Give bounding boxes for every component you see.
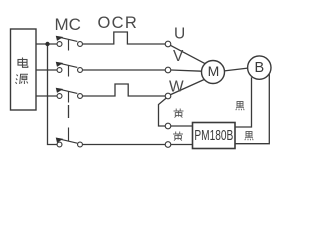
node junction dot on phase R <box>45 42 49 46</box>
terminal W <box>165 93 171 99</box>
wire phase R from box to pole1 <box>36 43 57 45</box>
wire brake line to PM180B <box>83 144 165 146</box>
power source box 电源 <box>11 29 37 110</box>
svg-text:M: M <box>208 63 220 79</box>
contactor MC pole 3 <box>57 89 82 103</box>
wire B right to PM180B right lower <box>235 74 269 144</box>
svg-text:W: W <box>169 79 184 96</box>
contactor MC pole 4 (brake) <box>57 128 82 147</box>
contactor MC pole 1 <box>57 37 82 51</box>
terminal yellow lower <box>165 142 171 148</box>
svg-text:PM180B: PM180B <box>194 127 233 143</box>
svg-text:OCR: OCR <box>98 14 139 32</box>
terminal U <box>165 41 171 47</box>
OCR thermal element on phase R <box>83 32 165 44</box>
label 黄 upper (yellow) hand drawn <box>174 109 184 118</box>
rectifier box PM180B <box>193 123 236 149</box>
svg-text:B: B <box>254 60 264 76</box>
wire phase T from box to pole3 <box>36 95 57 97</box>
wire U to motor <box>171 45 206 63</box>
wire tap from W to PM180B upper <box>159 98 167 126</box>
OCR thermal element on phase T <box>83 84 165 96</box>
wire W to motor <box>171 80 205 95</box>
wire vertical bus tap to brake line <box>48 44 57 145</box>
label PM180B <box>194 127 233 143</box>
label 电 (power) hand drawn <box>18 58 28 68</box>
wire M to B <box>225 68 248 71</box>
motor M <box>202 61 225 84</box>
contactor MC pole 2 <box>57 63 82 77</box>
svg-text:V: V <box>173 48 184 65</box>
terminal V <box>165 67 171 73</box>
brake coil B <box>248 56 271 79</box>
contactor linkage dashed <box>68 105 70 118</box>
wire B left to PM180B right upper <box>235 77 252 127</box>
label 黄 lower (yellow) hand drawn <box>173 132 183 141</box>
wire phase S from box to pole2 <box>36 69 57 71</box>
label 源 (source) hand drawn <box>16 74 29 84</box>
label 黑 upper (black) hand drawn <box>236 102 244 111</box>
wire V to motor <box>171 70 202 71</box>
svg-text:U: U <box>174 26 185 43</box>
svg-text:MC: MC <box>55 15 81 34</box>
label 黑 lower (black) hand drawn <box>245 132 253 141</box>
terminal yellow upper <box>165 123 171 129</box>
wire phase S to V terminal <box>83 69 165 71</box>
